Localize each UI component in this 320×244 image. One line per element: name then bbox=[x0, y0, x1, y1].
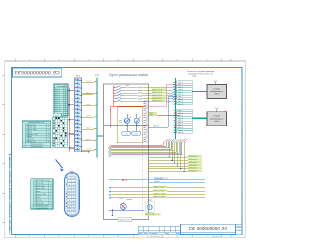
svg-text:Лист: Лист bbox=[237, 225, 241, 228]
svg-text:5: 5 bbox=[50, 193, 51, 196]
svg-text:3: 3 bbox=[50, 187, 51, 190]
svg-text:Подп. и дата: Подп. и дата bbox=[9, 171, 12, 183]
table: cross-reference grid bbox=[53, 113, 67, 147]
svg-text:Экранирование: Экранирование bbox=[30, 145, 42, 148]
svg-text:Копировал: Копировал bbox=[150, 235, 161, 238]
table: signal list A bbox=[54, 84, 68, 117]
left margin stamp column (inv. no / podp. cells) bbox=[9, 155, 12, 235]
wire: red feed bbox=[111, 106, 149, 127]
zone numbers bbox=[29, 59, 232, 238]
indication section box A2 bbox=[207, 81, 228, 99]
wires: lower signal group bbox=[110, 186, 206, 199]
svg-text:НВ25 1,0 СИН: НВ25 1,0 СИН bbox=[153, 196, 165, 199]
lamp HL1 bbox=[120, 197, 132, 210]
svg-text:HL1: HL1 bbox=[120, 197, 123, 200]
svg-text:СЕТЬ РЦБ: СЕТЬ РЦБ bbox=[154, 177, 163, 180]
svg-text:Подп. и дата: Подп. и дата bbox=[9, 219, 12, 231]
contact block KT1 bbox=[122, 131, 130, 136]
svg-text:1: 1 bbox=[50, 181, 51, 184]
relay annotation bbox=[119, 119, 123, 124]
svg-text:К1: К1 bbox=[129, 116, 131, 119]
wire: to indication section 2 bbox=[192, 117, 207, 119]
sheet outer border bbox=[5, 61, 246, 238]
svg-text:СЕТЬ3 0,5: СЕТЬ3 0,5 bbox=[188, 161, 196, 164]
svg-text:Экранирование: Экранирование bbox=[36, 207, 48, 210]
switch bank SA1 bbox=[113, 84, 142, 106]
svg-text:СЕТЬ6 0,5: СЕТЬ6 0,5 bbox=[188, 169, 196, 172]
svg-text:Подп.: Подп. bbox=[165, 232, 170, 235]
svg-text:СЕТЬ5 0,5: СЕТЬ5 0,5 bbox=[188, 167, 196, 170]
designation label box bbox=[118, 218, 131, 222]
title block (osnovnaya nadpis) bbox=[138, 224, 242, 238]
svg-text:Лист: Лист bbox=[144, 232, 148, 235]
svg-text:информацион.: информацион. bbox=[210, 117, 224, 120]
svg-text:7: 7 bbox=[50, 199, 51, 202]
svg-text:SA1: SA1 bbox=[126, 84, 129, 87]
svg-text:Секция: Секция bbox=[213, 88, 220, 91]
stamp: rotated document designation box bbox=[12, 68, 61, 77]
svg-text:НВ25-1 0,5 Л: НВ25-1 0,5 Л bbox=[152, 88, 162, 91]
svg-text:Дата: Дата bbox=[176, 232, 180, 235]
wire bundle to strip group 2 bbox=[109, 142, 182, 158]
svg-text:Сигнал упр.: Сигнал упр. bbox=[35, 181, 45, 184]
svg-text:Резерв: Резерв bbox=[35, 190, 41, 193]
svg-text:Формат А3: Формат А3 bbox=[212, 235, 223, 238]
relay loop bbox=[117, 107, 143, 143]
svg-text:НВ25-4 0,5 Л: НВ25-4 0,5 Л bbox=[152, 97, 162, 100]
svg-text:Относится к секции индикации: Относится к секции индикации bbox=[187, 70, 214, 73]
svg-text:реле: реле bbox=[119, 122, 122, 124]
svg-text:НВ25-5 0,5 Л: НВ25-5 0,5 Л bbox=[152, 100, 162, 103]
table: connector pin list C bbox=[31, 179, 53, 210]
svg-text:1: 1 bbox=[106, 123, 107, 126]
wires: indication group 1 bbox=[143, 85, 177, 102]
svg-text:СЕ 000000000 Э3: СЕ 000000000 Э3 bbox=[189, 226, 228, 231]
contact block KT2 bbox=[132, 131, 141, 136]
table: connector pin list B bbox=[22, 121, 51, 148]
svg-text:СЕТЬ1 0,5: СЕТЬ1 0,5 bbox=[188, 155, 196, 158]
svg-text:НВ25 1,0 СИН: НВ25 1,0 СИН bbox=[153, 193, 165, 196]
wire: red return from XP1 bbox=[82, 151, 91, 153]
relay K1 bbox=[124, 114, 131, 131]
svg-text:НВ25-2 0,5 Л: НВ25-2 0,5 Л bbox=[152, 91, 162, 94]
svg-text:Секция: Секция bbox=[213, 115, 220, 118]
relay K2 bbox=[134, 114, 141, 131]
svg-text:Сигнал табло: Сигнал табло bbox=[35, 187, 46, 190]
svg-text:СЕТЬ2 0,5: СЕТЬ2 0,5 bbox=[188, 158, 196, 161]
svg-text:Питание +27В: Питание +27В bbox=[35, 193, 47, 196]
connector XP1 bbox=[75, 75, 82, 152]
svg-text:2: 2 bbox=[50, 184, 51, 187]
wire: lamp supply bbox=[109, 210, 145, 217]
wire: screen common bbox=[149, 112, 180, 117]
bundle bend hatch bbox=[165, 139, 187, 142]
svg-text:Взам. инв.№: Взам. инв.№ bbox=[9, 188, 12, 199]
boundary dash line bbox=[142, 140, 144, 215]
wire: to indication section 1 bbox=[192, 91, 207, 93]
svg-text:НВ25 1,0 СИН: НВ25 1,0 СИН bbox=[153, 189, 165, 192]
riser wires to strip bbox=[149, 84, 177, 127]
svg-text:НВ25 1,0 СИН: НВ25 1,0 СИН bbox=[153, 186, 165, 189]
svg-text:Инв.№ подл.: Инв.№ подл. bbox=[9, 156, 12, 168]
svg-text:СЕТЬ4 0,5: СЕТЬ4 0,5 bbox=[188, 164, 196, 167]
svg-text:Наименование цепи: Наименование цепи bbox=[34, 179, 50, 182]
bus XT2 bbox=[95, 74, 109, 210]
svg-text:+27В: +27В bbox=[63, 85, 68, 88]
wires: lamp group to XT9 bbox=[149, 142, 203, 173]
svg-text:№ докум.: № докум. bbox=[150, 232, 158, 235]
svg-text:МИГ 1,0 Гц: МИГ 1,0 Гц bbox=[145, 213, 154, 216]
module A1 outline bbox=[103, 84, 148, 220]
svg-text:Сигнал инф.: Сигнал инф. bbox=[35, 184, 45, 187]
connector XS3 bbox=[65, 170, 80, 216]
wire: black common bbox=[103, 123, 148, 126]
svg-text:табло: табло bbox=[214, 120, 220, 123]
terminal strip XT9 bbox=[174, 75, 197, 139]
module A1 right pin column bbox=[143, 100, 148, 142]
svg-text:Групп управления табло: Групп управления табло bbox=[109, 73, 149, 77]
svg-text:Контроль: Контроль bbox=[35, 199, 42, 202]
drawing frame bbox=[11, 68, 242, 235]
svg-text:4: 4 bbox=[50, 190, 51, 193]
svg-text:ВЦ-М1: ВЦ-М1 bbox=[154, 180, 159, 183]
selection arrow bbox=[56, 160, 64, 172]
node +27V supply bus bbox=[63, 85, 75, 152]
indicator lamp (tablichka) bbox=[145, 198, 161, 216]
svg-text:информацион.: информацион. bbox=[210, 90, 224, 93]
svg-text:НВ25-3 0,5 Л: НВ25-3 0,5 Л bbox=[152, 94, 162, 97]
svg-text:табло: табло bbox=[214, 93, 220, 96]
svg-text:СЕ 0000000005Э3: СЕ 0000000005Э3 bbox=[14, 69, 59, 75]
wire: spare blue bbox=[149, 125, 169, 128]
zone tick marks bbox=[2, 59, 246, 238]
wires: network pair bbox=[109, 177, 206, 183]
wires XP1 to bus XT2 bbox=[82, 80, 97, 151]
svg-text:Инв.№ дубл.: Инв.№ дубл. bbox=[9, 203, 12, 215]
svg-text:МБ2.087.143: МБ2.087.143 bbox=[120, 218, 130, 221]
svg-text:К2: К2 bbox=[139, 116, 141, 119]
svg-text:6: 6 bbox=[50, 196, 51, 199]
svg-text:Общий: Общий bbox=[35, 196, 41, 199]
svg-text:К=0,5: К=0,5 bbox=[55, 114, 59, 117]
indication section box A3 bbox=[207, 108, 228, 126]
